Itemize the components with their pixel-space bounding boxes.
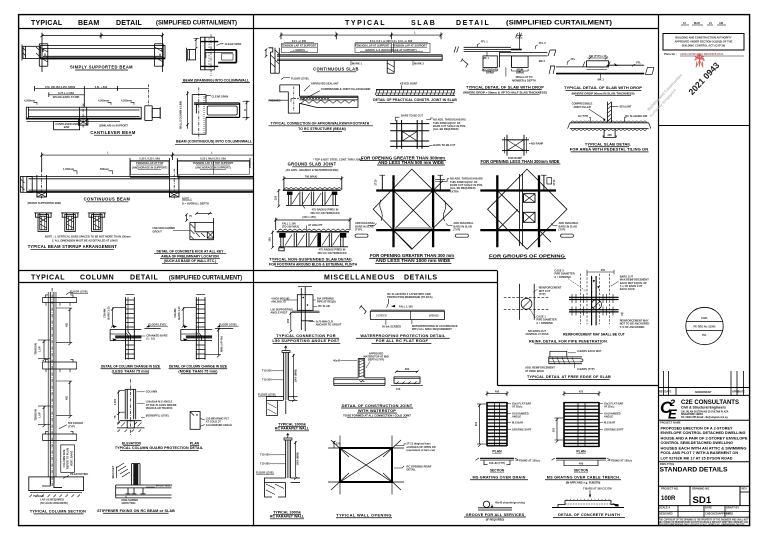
svg-text:(ANCHORAGE IN SUPPORT): (ANCHORAGE IN SUPPORT) bbox=[195, 166, 230, 170]
svg-text:U-BARS EACH WAY: U-BARS EACH WAY bbox=[577, 349, 602, 353]
svg-text:FLOOR LEVEL: FLOOR LEVEL bbox=[70, 290, 89, 294]
svg-text:150: 150 bbox=[267, 237, 271, 242]
svg-text:FOR ALL RC FLAT ROOF: FOR ALL RC FLAT ROOF bbox=[376, 338, 429, 343]
continuous beam : left support column bbox=[37, 169, 47, 199]
svg-text:EXTRA: EXTRA bbox=[450, 189, 459, 193]
svg-text:(TYP): (TYP) bbox=[539, 292, 546, 296]
beam continuous into column/wall : clear span leader + depth dim bbox=[205, 95, 250, 121]
svg-text:D = OVERALL DEPTH: D = OVERALL DEPTH bbox=[182, 202, 209, 206]
svg-text:DWG TITLE: DWG TITLE bbox=[660, 462, 675, 466]
svg-text:DETAIL: DETAIL bbox=[130, 275, 158, 282]
svg-text:75 LEAN: 75 LEAN bbox=[33, 494, 44, 498]
non-suspended slab : label 2 lines bbox=[269, 257, 358, 267]
svg-text:TYPICAL COLUMN SECTION: TYPICAL COLUMN SECTION bbox=[30, 510, 86, 514]
svg-text:0.25 L 0.25 L 60d: 0.25 L 0.25 L 60d bbox=[139, 157, 160, 161]
svg-text:300 C/C ON TERRACES: 300 C/C ON TERRACES bbox=[310, 211, 339, 215]
column guard plan : rect + leaders bbox=[190, 412, 232, 430]
continuous slab : left wall support bbox=[265, 48, 280, 73]
waterproofing detail : section mark bbox=[359, 305, 366, 314]
construction joint : label 3 lines bbox=[341, 403, 413, 418]
wall opening : label bbox=[336, 513, 392, 518]
svg-text:DESIGNED: DESIGNED bbox=[659, 511, 673, 515]
svg-text:TYPICAL WALL OPENING: TYPICAL WALL OPENING bbox=[336, 513, 392, 518]
svg-text:SIMPLY SUPPORTED BEAM: SIMPLY SUPPORTED BEAM bbox=[70, 65, 133, 70]
svg-text:L50 SUPPORTING ANGLE POST: L50 SUPPORTING ANGLE POST bbox=[272, 338, 340, 343]
right column stamp box rule bbox=[658, 125, 750, 127]
svg-text:DETAIL OF CONCRETE KICK AT ALL: DETAIL OF CONCRETE KICK AT ALL KEY bbox=[156, 249, 224, 253]
svg-text:RC SLAB: RC SLAB bbox=[318, 304, 330, 308]
diamond opening 2 : bold cross bars bbox=[480, 175, 556, 247]
column elevation : left tension lap bracket lower bbox=[34, 406, 51, 427]
svg-text:RC SLAB BELOW: RC SLAB BELOW bbox=[625, 114, 647, 118]
cantilever beam : level leader texts bbox=[24, 99, 134, 105]
svg-text:PLAN: PLAN bbox=[492, 449, 502, 453]
svg-text:GROUT: GROUT bbox=[153, 229, 163, 233]
svg-text:(equivalent of bars cut): (equivalent of bars cut) bbox=[407, 448, 436, 452]
column elevation : middle slab bbox=[43, 359, 77, 372]
svg-text:(SIMPLIFIED CURTAILMENT): (SIMPLIFIED CURTAILMENT) bbox=[506, 20, 612, 27]
divider main area / right column bbox=[658, 15, 660, 526]
svg-text:T10-200: T10-200 bbox=[260, 453, 270, 457]
pipe penetration : right sub-drawing top dim bbox=[587, 268, 614, 274]
svg-text:GROOVE FOR ALL SERVICES: GROOVE FOR ALL SERVICES bbox=[466, 513, 525, 517]
pedestal tiling : leaders bbox=[572, 102, 648, 122]
slab extension bottom rule bbox=[498, 385, 659, 387]
svg-text:TYPICAL DETAIL AT FREE EDG: TYPICAL DETAIL AT FREE EDGE OF SLAB bbox=[527, 375, 611, 379]
non-suspended slab : bottom leader bbox=[317, 248, 346, 255]
construction joint : slab band tee bbox=[334, 378, 385, 385]
svg-text:TENSION: TENSION bbox=[34, 409, 38, 421]
svg-text:TENSION LAP AT TOP: TENSION LAP AT TOP bbox=[136, 161, 164, 165]
svg-text:AM: AM bbox=[719, 21, 723, 25]
column change detail 2 : floor line + level bbox=[215, 322, 239, 328]
svg-text:SCREED: SCREED bbox=[376, 313, 387, 317]
svg-text:50 thk SCREED: 50 thk SCREED bbox=[382, 325, 401, 329]
column change detail 2 : ladder column bbox=[196, 295, 205, 360]
svg-text:D: D bbox=[244, 108, 246, 112]
svg-text:COLUMN: COLUMN bbox=[80, 275, 114, 282]
continuous slab : middle support bbox=[387, 61, 394, 74]
non-suspended slab : top notes bbox=[282, 221, 323, 230]
pipe penetration : case 2 text bbox=[554, 268, 586, 291]
diamond opening 2 : diamond bbox=[488, 169, 568, 249]
stiffener fixing : post bbox=[132, 464, 141, 485]
slab with drop 2 : slab band with curb bbox=[556, 61, 644, 74]
column guard : shared label bbox=[115, 446, 204, 450]
diamond opening 1 : bold cross bars bbox=[376, 175, 450, 247]
svg-text:FOR GROUPS OF OPENING: FOR GROUPS OF OPENING bbox=[489, 253, 565, 258]
free edge of slab : leaders bbox=[525, 349, 602, 373]
svg-text:MK 1: MK 1 bbox=[598, 77, 605, 81]
svg-text:CRANK: CRANK bbox=[173, 308, 177, 317]
svg-text:SD1: SD1 bbox=[693, 495, 712, 506]
svg-text:FIGURED DIMENSIONS ONLY. DO NO: FIGURED DIMENSIONS ONLY. DO NOT SCALE. V… bbox=[659, 522, 745, 526]
svg-text:SEALANT: SEALANT bbox=[619, 105, 632, 109]
grating over cable trench : label 2 lines bbox=[545, 476, 621, 485]
svg-text:DRAWING NO.: DRAWING NO. bbox=[692, 487, 710, 491]
column change detail 1 : left dim + crank text bbox=[103, 306, 126, 328]
svg-text:GRATING SUPT: GRATING SUPT bbox=[512, 427, 532, 431]
cantilever beam : root support column bbox=[78, 104, 88, 128]
stiffener fixing : epoxy bolt leader bbox=[146, 483, 173, 487]
svg-text:TO RC STRUCTURE (BEAM): TO RC STRUCTURE (BEAM) bbox=[298, 127, 346, 131]
svg-text:FLOOR LEVEL: FLOOR LEVEL bbox=[149, 322, 168, 326]
apron connection : finishes leader bbox=[269, 98, 289, 102]
practical joint in slab : label bbox=[373, 98, 457, 102]
svg-text:AMENDMENT: AMENDMENT bbox=[695, 390, 712, 394]
svg-text:BEAM: BEAM bbox=[78, 20, 99, 27]
column elevation : floor level note top bbox=[66, 290, 89, 295]
svg-text:100 (TYP) x 48: 100 (TYP) x 48 bbox=[589, 54, 607, 58]
cantilever beam : label bbox=[90, 130, 136, 135]
stirrup arrangement : section 1 bbox=[34, 213, 52, 232]
svg-text:TYPICAL: TYPICAL bbox=[345, 20, 386, 27]
svg-text:PROJECT NO.: PROJECT NO. bbox=[661, 487, 679, 491]
svg-text:(WHERE DROP 50mm IN SLAB THIC: (WHERE DROP 50mm IN SLAB THICKNESS) bbox=[571, 91, 634, 95]
stirrup arrangement : section 2 bbox=[61, 213, 79, 232]
svg-text:AT 25c/c: AT 25c/c bbox=[512, 405, 523, 409]
slab with drop 1 : FFL leaders + centre mark bbox=[477, 32, 546, 49]
svg-text:PROJECT NAME: PROJECT NAME bbox=[660, 421, 681, 425]
svg-text:40 (TYP): 40 (TYP) bbox=[578, 114, 589, 118]
grating over cable trench : left dim 300 bbox=[552, 418, 563, 443]
svg-text:(LESS THAN 75 mm): (LESS THAN 75 mm) bbox=[112, 370, 150, 374]
pipe penetration : right sub-drawing body bbox=[569, 274, 619, 326]
simply supported beam : span dimension line bbox=[41, 31, 165, 72]
continuous beam : left wall stub bbox=[21, 177, 33, 193]
beam spanning into column/wall : left dim bbox=[194, 38, 200, 49]
svg-text:TYPICAL: TYPICAL bbox=[31, 20, 63, 27]
svg-text:1000 (MIN): 1000 (MIN) bbox=[293, 369, 297, 382]
svg-text:+ MARKS: + MARKS bbox=[293, 48, 305, 52]
svg-text:(MORE THAN 75 mm): (MORE THAN 75 mm) bbox=[178, 370, 218, 374]
svg-text:AT HIGH PT: AT HIGH PT bbox=[308, 223, 323, 227]
svg-text:LOT 02762K MK 17 AT 15 DYSON R: LOT 02762K MK 17 AT 15 DYSON ROAD bbox=[661, 456, 733, 460]
svg-text:T10-200: T10-200 bbox=[262, 378, 272, 382]
column guard plan : label bbox=[190, 442, 200, 446]
svg-text:FIXING AT 100c/c: FIXING AT 100c/c bbox=[519, 458, 541, 462]
ground slab joint : top dim bbox=[282, 174, 343, 190]
column change detail 2 : left dim + crank text bbox=[173, 306, 196, 328]
svg-text:COLUMN: COLUMN bbox=[146, 390, 158, 394]
svg-text:CIVIL: CIVIL bbox=[701, 316, 708, 320]
svg-text:475: 475 bbox=[579, 389, 584, 393]
waterproofing detail : top leader bbox=[387, 292, 433, 308]
svg-text:(REFER SUPPORTED END): (REFER SUPPORTED END) bbox=[28, 201, 62, 205]
lower title band rules bbox=[19, 270, 497, 272]
svg-text:AT 25c/c: AT 25c/c bbox=[604, 405, 615, 409]
svg-text:FFL 1: FFL 1 bbox=[481, 40, 488, 44]
svg-text:(SIMPLIFIED CURTAILMENT): (SIMPLIFIED CURTAILMENT) bbox=[156, 20, 237, 27]
svg-text:DETAIL OF CONCRETE PLINTH: DETAIL OF CONCRETE PLINTH bbox=[558, 513, 620, 517]
pedestal tiling : label bbox=[570, 142, 649, 152]
svg-text:(MEMB): (MEMB) bbox=[429, 313, 439, 317]
svg-text:150: 150 bbox=[396, 387, 401, 391]
continuous beam : note D = overall depth bbox=[182, 196, 209, 205]
svg-text:(ALL BE REQUIRED): (ALL BE REQUIRED) bbox=[433, 127, 459, 131]
continuous beam : 1.50bw leaders bbox=[63, 167, 113, 174]
slab with drop 1 : slab bands bbox=[454, 47, 556, 57]
svg-text:2T10: 2T10 bbox=[552, 179, 556, 185]
svg-text:BAR: BAR bbox=[64, 125, 70, 129]
pipe penetration : bottom note + label bbox=[529, 332, 625, 343]
svg-text:H/2: H/2 bbox=[65, 395, 69, 400]
svg-text:STIFFENER FIXING ON RC BEA: STIFFENER FIXING ON RC BEAM or SLAB bbox=[97, 509, 175, 513]
svg-text:SECTION: SECTION bbox=[574, 469, 589, 473]
svg-text:TYPICAL CONNECTION OF APRON: TYPICAL CONNECTION OF APRON/WALKWAY/FOOT… bbox=[271, 121, 370, 125]
pipe penetration : right leaders bbox=[611, 274, 650, 328]
svg-text:(TYP): (TYP) bbox=[559, 228, 566, 232]
simply supported beam : left column support bbox=[39, 44, 48, 66]
svg-text:P.E.: P.E. bbox=[702, 333, 707, 337]
svg-text:CRANK: CRANK bbox=[103, 308, 107, 317]
svg-text:RC PARAPET WALL: RC PARAPET WALL bbox=[275, 427, 310, 431]
svg-text:(KERB/FFL) LEVEL: (KERB/FFL) LEVEL bbox=[146, 414, 170, 418]
small opening grid : leaders bbox=[508, 141, 543, 159]
svg-text:TO BE FORMED AT ALL CONNECTION: TO BE FORMED AT ALL CONNECTION / COLD JO… bbox=[343, 414, 411, 418]
concrete kicker detail : label 3 lines bbox=[154, 249, 226, 263]
svg-text:AND LESS THAN 1000 mm WIDE: AND LESS THAN 1000 mm WIDE bbox=[376, 258, 451, 263]
svg-text:25h: 25h bbox=[601, 268, 606, 272]
svg-text:CONTROL SEMI-DETACHED DWELLING: CONTROL SEMI-DETACHED DWELLING bbox=[661, 441, 733, 445]
wall opening : bold square + extended lines bbox=[328, 436, 404, 495]
scale/date rows bbox=[677, 506, 679, 518]
svg-text:4,500mm: 4,500mm bbox=[98, 99, 110, 103]
diamond opening 1 : side brackets bbox=[380, 200, 383, 221]
continuous slab : mark leaders bbox=[351, 61, 425, 66]
column change detail 2 : right lap dim bbox=[205, 328, 223, 357]
stiffener fixing : weld marks + bracket text bbox=[111, 463, 130, 478]
svg-text:APPROVED SEALANT: APPROVED SEALANT bbox=[311, 82, 339, 86]
practical joint in slab : slab band bbox=[375, 90, 455, 96]
groove for services : detail bbox=[478, 500, 525, 510]
wall opening : inner X + corner diagonals bbox=[331, 440, 401, 490]
divider beam/slab sections bbox=[253, 15, 255, 526]
apron connection : slab + zigzag mesh bbox=[291, 96, 358, 107]
simply supported beam : far-left wall stub bbox=[22, 45, 39, 61]
slab with drop 2 : dims and leaders bbox=[549, 54, 654, 81]
simply supported beam : right column support bbox=[155, 44, 164, 66]
beam spanning into column/wall : beam body bbox=[205, 50, 237, 63]
svg-text:ENVELOPE CONTROL DETACHED DWEL: ENVELOPE CONTROL DETACHED DWELLING bbox=[661, 431, 746, 435]
beam spanning into column/wall : label bbox=[182, 78, 250, 82]
svg-text:T10-200: T10-200 bbox=[262, 369, 272, 373]
svg-text:LAP: LAP bbox=[37, 346, 41, 351]
grating over cable trench : section bbox=[552, 458, 633, 466]
svg-text:SECTION: SECTION bbox=[490, 469, 505, 473]
small opening grid : label bbox=[480, 159, 560, 164]
opening detail less than 300 : leaders bbox=[396, 114, 467, 148]
svg-text:DEPTH (TYP): DEPTH (TYP) bbox=[368, 358, 384, 362]
diamond opening 2 : inner verticals + X bbox=[497, 174, 551, 246]
svg-text:0.5L + 60d: 0.5L + 60d bbox=[95, 85, 108, 89]
svg-text:300: 300 bbox=[552, 427, 556, 432]
svg-text:FOR OPENING LESS THAN 300mm WI: FOR OPENING LESS THAN 300mm WIDE bbox=[481, 159, 560, 164]
svg-text:100+60 (TYP): 100+60 (TYP) bbox=[489, 461, 505, 465]
svg-text:(SUCH AS BASE OF WALL ETC.): (SUCH AS BASE OF WALL ETC.) bbox=[164, 259, 217, 263]
svg-text:MARKS 1+2 (ANCHORAGE AT SUPPO: MARKS 1+2 (ANCHORAGE AT SUPPORT) bbox=[365, 48, 416, 52]
stirrup arrangement : notes bbox=[45, 235, 131, 243]
column change detail 1 : cranked bars note bbox=[134, 333, 167, 340]
svg-text:500mm: 500mm bbox=[100, 167, 110, 171]
svg-text:CONTINUOUS SLAB: CONTINUOUS SLAB bbox=[313, 66, 359, 71]
svg-text:RC PARAPET WALL: RC PARAPET WALL bbox=[270, 515, 305, 519]
svg-text:TYPICAL DETAIL OF SLAB WIT: TYPICAL DETAIL OF SLAB WITH DROP bbox=[564, 85, 642, 90]
svg-text:FALL 1:100: FALL 1:100 bbox=[399, 304, 413, 308]
svg-text:DETAIL: DETAIL bbox=[116, 20, 142, 27]
svg-text:BRACKET: BRACKET bbox=[111, 465, 115, 478]
svg-text:DETAIL OF COLUMN CHANGE IN SIZ: DETAIL OF COLUMN CHANGE IN SIZE bbox=[169, 365, 227, 369]
svg-text:SPLICE BARS AT MID: SPLICE BARS AT MID bbox=[53, 95, 80, 99]
svg-text:(150 x 150): (150 x 150) bbox=[302, 215, 315, 219]
parapet wall 2 : leader texts bbox=[256, 453, 286, 475]
svg-text:NO RAMP: NO RAMP bbox=[531, 141, 544, 145]
svg-text:0.2 L or 300: 0.2 L or 300 bbox=[292, 39, 307, 43]
svg-text:(WHERE DROP > 50mm & UP TO HAL: (WHERE DROP > 50mm & UP TO HALF SLAB THI… bbox=[463, 90, 547, 94]
free edge of slab : label bbox=[527, 375, 611, 379]
svg-text:VERT. BARS: VERT. BARS bbox=[69, 451, 73, 467]
svg-text:(IF REQUIRED): (IF REQUIRED) bbox=[486, 518, 505, 522]
beam spanning into column/wall : far-left stub bbox=[187, 48, 196, 62]
svg-text:WALL/COLUMN d LINK: WALL/COLUMN d LINK bbox=[179, 101, 183, 130]
svg-text:PE REG No 12345: PE REG No 12345 bbox=[694, 325, 716, 329]
beam spanning into column/wall : clear span leader bbox=[217, 42, 242, 46]
svg-text:FFL: FFL bbox=[571, 57, 576, 61]
svg-text:AT FREE EDGE: AT FREE EDGE bbox=[525, 369, 544, 373]
svg-text:BEAM (SPANNING) INTO COLUMN/WA: BEAM (SPANNING) INTO COLUMN/WALL bbox=[183, 78, 250, 82]
svg-text:KEYED JOINT: KEYED JOINT bbox=[400, 82, 418, 86]
parapet wall 1 : right dim bbox=[292, 354, 297, 402]
svg-text:LAP: LAP bbox=[37, 412, 41, 417]
svg-text:U-BARS (TYP): U-BARS (TYP) bbox=[577, 367, 595, 371]
groove for services : label bbox=[464, 513, 526, 522]
svg-text:BARS TO BE CUT: BARS TO BE CUT bbox=[433, 143, 455, 147]
column change detail 1 : ladder column bbox=[126, 295, 135, 360]
continuous slab : label bbox=[313, 66, 359, 71]
svg-text:BEAM: BEAM bbox=[516, 70, 524, 74]
svg-text:ANCHOR TO GROUT: ANCHOR TO GROUT bbox=[316, 323, 342, 327]
column elevation : top floor slab bbox=[43, 295, 77, 306]
parapet wall 1 : label bbox=[275, 422, 310, 430]
parapet wall 1 : base slab L bbox=[267, 397, 298, 416]
svg-text:TYPICAL DETAIL OF SLAB WIT: TYPICAL DETAIL OF SLAB WITH DROP bbox=[466, 84, 544, 89]
column guard elevation : centreline + column bbox=[125, 379, 136, 435]
svg-text:FOR AREA WITH PEDESTAL TILING: FOR AREA WITH PEDESTAL TILING ON bbox=[570, 147, 649, 152]
svg-text:NOTE : 1. VERTICAL BARS SPACE: NOTE : 1. VERTICAL BARS SPACED TO BE NOT… bbox=[45, 235, 131, 239]
svg-text:d < OPENING: d < OPENING bbox=[536, 321, 553, 325]
svg-text:TYPICAL: TYPICAL bbox=[31, 275, 65, 282]
divider misc / slab extension bbox=[497, 271, 499, 386]
svg-text:MK 3: MK 3 bbox=[539, 59, 546, 63]
column elevation : upper lap dimension H/2 bbox=[56, 308, 72, 345]
svg-text:PLAN: PLAN bbox=[576, 449, 586, 453]
svg-text:(SIMILAR) At SUPPORT: (SIMILAR) At SUPPORT bbox=[99, 124, 128, 128]
svg-text:MS GRATING OVER CABLE TREN: MS GRATING OVER CABLE TRENCH bbox=[547, 476, 619, 480]
column elevation : footing bbox=[29, 477, 84, 497]
stiffener fixing : slab band bbox=[116, 485, 172, 498]
svg-text:REFER TO PLAN: REFER TO PLAN bbox=[66, 448, 70, 469]
svg-text:150: 150 bbox=[286, 318, 290, 323]
column elevation : kicker leader bbox=[59, 421, 83, 429]
beam spanning into column/wall : column bbox=[201, 34, 219, 76]
svg-text:(TO-100 MAX): (TO-100 MAX) bbox=[282, 225, 299, 229]
svg-text:E: E bbox=[668, 407, 677, 422]
angle post connection : left dim bbox=[286, 312, 292, 333]
svg-text:FLOOR LEVEL: FLOOR LEVEL bbox=[219, 322, 238, 326]
column elevation : label bbox=[30, 510, 86, 514]
svg-text:DETAIL OF COLUMN CHANGE IN SIZ: DETAIL OF COLUMN CHANGE IN SIZE bbox=[101, 365, 160, 369]
diamond opening 1 : right top leader text bbox=[435, 177, 483, 194]
svg-text:(ANCHORAGE IN SUPPORT): (ANCHORAGE IN SUPPORT) bbox=[132, 166, 167, 170]
svg-text:SCALE A: SCALE A bbox=[659, 506, 670, 510]
svg-text:NOTE :-: NOTE :- bbox=[182, 196, 192, 200]
grating over drain : leaders bbox=[508, 401, 532, 431]
diamond opening 1 : grey infill strip bbox=[394, 227, 433, 229]
svg-text:DETAIL: DETAIL bbox=[407, 468, 417, 472]
svg-text:HOUSE AND A PAIR OF 2-STOREY E: HOUSE AND A PAIR OF 2-STOREY ENVELOPE bbox=[661, 436, 748, 440]
grating over drain : label bbox=[470, 476, 528, 480]
svg-text:FLOOR LEVEL: FLOOR LEVEL bbox=[256, 470, 275, 474]
slab with drop 1 : mid leader note bbox=[506, 67, 536, 82]
svg-text:TYPICAL COLUMN GUARD PROTEC: TYPICAL COLUMN GUARD PROTECTION DETAIL bbox=[115, 446, 204, 450]
diamond opening 1 : diamond bbox=[373, 169, 452, 249]
svg-text:300: 300 bbox=[607, 133, 612, 137]
svg-text:BUILDING CONTROL ACT (CAP 29): BUILDING CONTROL ACT (CAP 29) bbox=[682, 44, 726, 48]
svg-text:2. ALL DIMENSION MUST BE AS DE: 2. ALL DIMENSION MUST BE AS DETAILED AT … bbox=[52, 238, 118, 242]
svg-text:d > OPENING: d > OPENING bbox=[554, 275, 571, 279]
svg-text:TENSION LAP AT SUPPORT: TENSION LAP AT SUPPORT bbox=[282, 43, 317, 47]
column elevation : pile/footing note bbox=[63, 472, 88, 479]
svg-text:0.75 L or 60d: 0.75 L or 60d bbox=[58, 91, 74, 95]
svg-text:900: 900 bbox=[474, 421, 478, 426]
svg-text:Tel: 6299 1255 Email: c2e@sin: Tel: 6299 1255 Email: c2e@singnet.com.sg bbox=[681, 416, 728, 419]
svg-text:FFL 2: FFL 2 bbox=[539, 41, 546, 45]
svg-text:0.3 L 0.3 L or 300 0.3 L: 0.3 L 0.3 L or 300 0.3 L 0.3 L or 300 bbox=[370, 39, 413, 43]
column elevation : main verticals + centreline bbox=[48, 288, 56, 486]
diamond opening 1 : inner X bbox=[394, 181, 444, 249]
grating over drain : top dim 400 bbox=[486, 389, 509, 396]
svg-text:ANL BOLTS: ANL BOLTS bbox=[271, 300, 286, 304]
svg-text:T. O OF ANCHORED: T. O OF ANCHORED bbox=[620, 325, 645, 329]
svg-text:POOL AND PLOT 7 WITH A BASEMEN: POOL AND PLOT 7 WITH A BASEMENT ON bbox=[661, 451, 739, 455]
registration tick marks above title block bbox=[663, 371, 665, 388]
svg-text:(TYP): (TYP) bbox=[68, 424, 75, 428]
diamond opening 2 : small hatched openings bbox=[524, 194, 536, 223]
svg-text:BUILDING AND CONSTRUCTION AUTH: BUILDING AND CONSTRUCTION AUTHORITY bbox=[675, 36, 731, 40]
diamond opening 2 : right callout + pill bbox=[551, 221, 579, 237]
construction joint : footing at right bbox=[391, 367, 423, 391]
svg-text:100R: 100R bbox=[661, 496, 676, 502]
svg-text:AND LESS THAN 500 mm WIDE: AND LESS THAN 500 mm WIDE bbox=[378, 160, 444, 165]
parapet wall 2 : wall body bbox=[284, 434, 292, 479]
svg-text:FOR FOOTPATH AROUND BLDG & EXT: FOR FOOTPATH AROUND BLDG & EXTERNAL PLIN… bbox=[269, 263, 358, 267]
svg-text:CENTRALLY PASS: CENTRALLY PASS bbox=[525, 332, 548, 336]
simply supported beam : label bbox=[70, 65, 133, 70]
top title band rule bbox=[19, 28, 658, 30]
BCA red logo stamp bbox=[695, 54, 705, 68]
waterproofing detail : bottom leaders bbox=[382, 320, 458, 332]
wall opening : top dim + leaders bbox=[333, 441, 436, 472]
column change detail 1 : slab band with crank bbox=[110, 329, 141, 359]
svg-text:(1 : 10): (1 : 10) bbox=[146, 337, 154, 341]
amendment header row bbox=[658, 394, 750, 396]
angle post connection : label 2 lines bbox=[272, 333, 340, 343]
svg-text:PROTECTION MEMBRANE (TO BCA): PROTECTION MEMBRANE (TO BCA) bbox=[387, 295, 432, 299]
column guard elevation : leader texts bbox=[137, 390, 177, 418]
diamond opening 2 : corner U-bar symbols bbox=[541, 175, 556, 190]
grating over cable trench : top dim 475 bbox=[563, 389, 601, 396]
svg-text:PROPOSED ERECTION OF A 2-STORE: PROPOSED ERECTION OF A 2-STOREY bbox=[661, 426, 733, 430]
